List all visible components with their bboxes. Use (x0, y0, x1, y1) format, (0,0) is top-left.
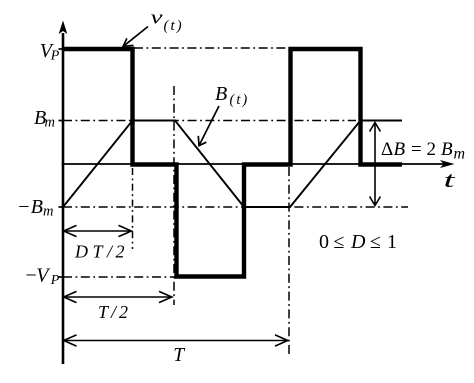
svg-text:(t): (t) (230, 92, 250, 108)
svg-text:VP: VP (40, 40, 60, 64)
y-axis (59, 21, 68, 365)
DeltaB = 2 Bm annotation arrow (370, 123, 381, 206)
x-axis (t axis) (62, 160, 455, 168)
tick V_P (59, 48, 64, 50)
T/2 dimension arrow (64, 291, 173, 302)
V_P level dash-dot line (134, 47, 289, 49)
-V_P level dash-dot line (63, 276, 175, 278)
T dimension arrow (64, 335, 289, 346)
tick -V_P (59, 276, 64, 278)
v(t) label pointer arrow (123, 27, 148, 47)
T vertical dash-dot line (288, 167, 290, 356)
svg-text:−VP: −VP (24, 265, 60, 289)
svg-text:Bm: Bm (34, 107, 55, 131)
tick -B_m (59, 206, 64, 208)
svg-text:t: t (444, 167, 457, 192)
svg-text:0≤D≤1: 0≤D≤1 (319, 231, 397, 253)
DT/2 vertical dash-dot line (132, 168, 134, 249)
svg-text:(t): (t) (164, 18, 184, 34)
B_m level dash-dot line (63, 120, 356, 122)
svg-text:T: T (173, 345, 185, 366)
B(t) triangular waveform (63, 121, 402, 208)
svg-text:ΔB=2Bm: ΔB=2Bm (381, 139, 465, 163)
v(t) square waveform (63, 49, 402, 277)
-B_m level dash-dot line (63, 206, 408, 208)
T/2 vertical dash-dot line (173, 86, 175, 305)
svg-text:B: B (215, 83, 227, 105)
tick B_m (59, 120, 64, 122)
svg-text:−Bm: −Bm (17, 196, 53, 220)
svg-text:T/2: T/2 (98, 302, 128, 322)
svg-text:DT/2: DT/2 (74, 242, 125, 262)
B(t) label pointer arrow (198, 106, 219, 146)
DT/2 dimension arrow (64, 225, 132, 236)
svg-text:v: v (151, 8, 164, 29)
